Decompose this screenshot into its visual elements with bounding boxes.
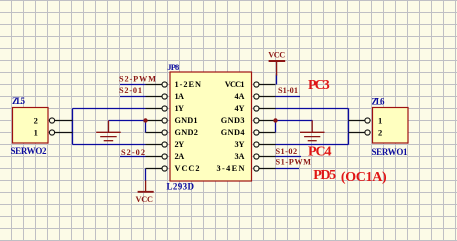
svg-text:S2-02: S2-02 [121, 148, 145, 157]
svg-text:2A: 2A [175, 152, 185, 161]
svg-text:VCC: VCC [136, 195, 154, 204]
svg-text:L293D: L293D [167, 182, 195, 192]
svg-text:PD5: PD5 [313, 168, 336, 183]
svg-text:3A: 3A [235, 152, 245, 161]
svg-text:SERWO1: SERWO1 [372, 147, 409, 157]
svg-text:S2-01: S2-01 [119, 86, 142, 95]
svg-text:PC4: PC4 [308, 145, 332, 160]
svg-text:S1-02: S1-02 [276, 147, 298, 156]
svg-text:1A: 1A [175, 92, 185, 101]
svg-text:VCC2: VCC2 [175, 164, 200, 173]
svg-text:GND1: GND1 [175, 116, 198, 125]
svg-text:3Y: 3Y [235, 140, 245, 149]
svg-text:2: 2 [34, 115, 38, 125]
svg-text:VCC1: VCC1 [225, 80, 245, 89]
svg-text:VCC: VCC [268, 50, 285, 59]
svg-text:S1-PWM: S1-PWM [276, 158, 312, 167]
svg-text:2Y: 2Y [175, 140, 185, 149]
svg-text:2: 2 [378, 127, 382, 137]
svg-text:4Y: 4Y [235, 104, 245, 113]
svg-text:GND3: GND3 [221, 116, 245, 125]
svg-text:GND4: GND4 [221, 128, 245, 137]
svg-text:JP8: JP8 [167, 62, 179, 72]
svg-text:1: 1 [34, 127, 38, 137]
svg-text:GND2: GND2 [175, 128, 198, 137]
svg-text:PC3: PC3 [308, 78, 330, 93]
svg-text:ZL5: ZL5 [12, 96, 26, 106]
svg-text:S2-PWM: S2-PWM [119, 75, 156, 84]
svg-text:(OC1A): (OC1A) [341, 170, 387, 185]
svg-text:1Y: 1Y [175, 104, 185, 113]
svg-text:1-2EN: 1-2EN [175, 80, 202, 89]
svg-text:1: 1 [378, 115, 382, 125]
svg-text:ZL6: ZL6 [372, 97, 386, 107]
svg-text:SERWO2: SERWO2 [11, 146, 48, 156]
svg-text:4A: 4A [235, 92, 245, 101]
svg-text:S1-01: S1-01 [278, 86, 298, 95]
